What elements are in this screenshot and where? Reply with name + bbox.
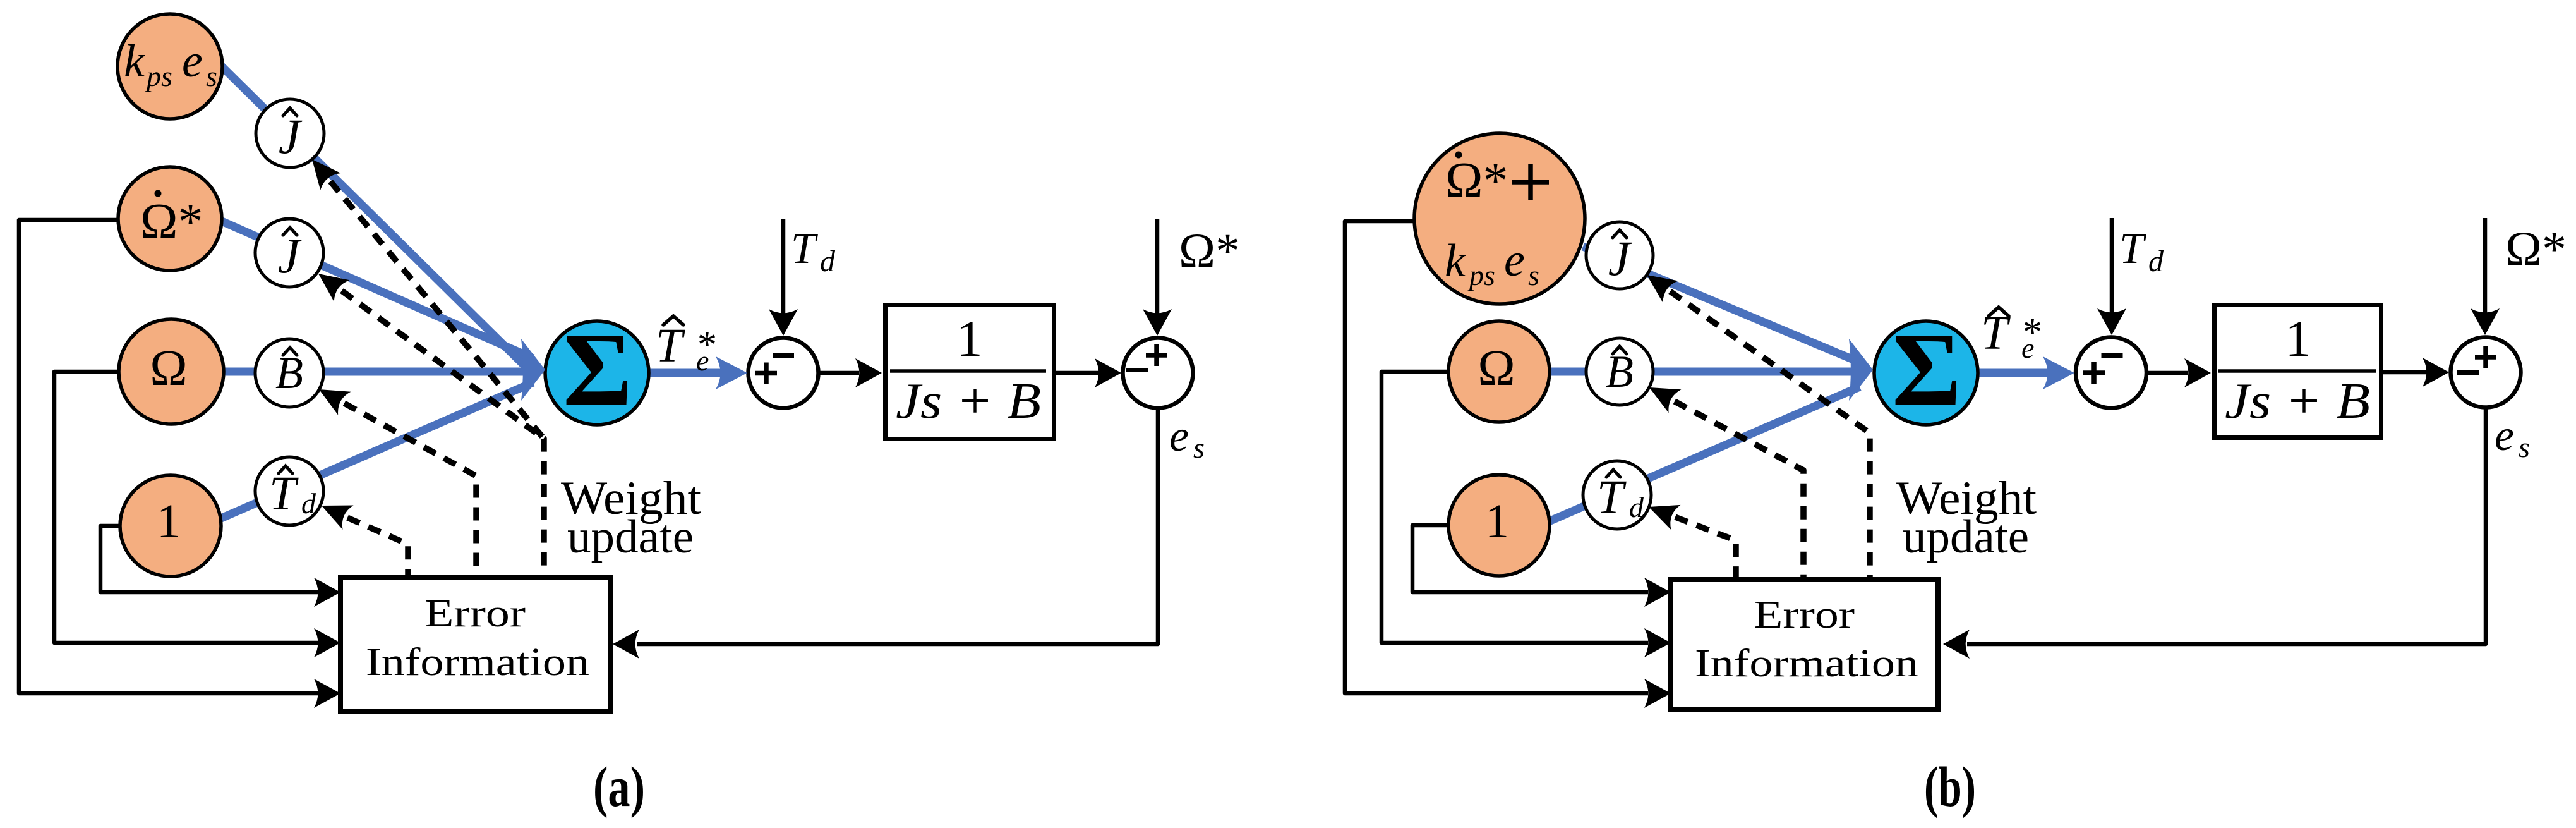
svg-text:T: T bbox=[656, 319, 685, 372]
wire box to junction2 (a) bbox=[1056, 371, 1099, 375]
weight B-hat (b) bbox=[1586, 338, 1653, 405]
node Omega-dot-star+k_ps*e_s input (b) bbox=[1414, 133, 1585, 304]
node k_ps*e_s input (a) bbox=[117, 14, 222, 119]
node 1 input (a) bbox=[120, 475, 221, 576]
svg-text:update: update bbox=[567, 511, 694, 563]
svg-text:s: s bbox=[1528, 259, 1539, 291]
svg-text:B: B bbox=[275, 348, 303, 398]
wire e_s feedback (a) bbox=[637, 407, 1158, 644]
wire box to junction2 (b) bbox=[2383, 370, 2427, 375]
svg-text:d: d bbox=[820, 245, 836, 278]
svg-text:Σ: Σ bbox=[563, 311, 632, 429]
weight T-hat-d (b) bbox=[1583, 461, 1651, 529]
svg-text:Js + B: Js + B bbox=[896, 374, 1041, 429]
svg-text:T: T bbox=[269, 467, 299, 520]
wire feedback Omega (b) bbox=[1381, 372, 1648, 643]
svg-text:Ω: Ω bbox=[150, 341, 187, 396]
svg-text:e: e bbox=[1504, 234, 1525, 286]
svg-text:T: T bbox=[791, 224, 819, 273]
error information box (a) bbox=[340, 578, 610, 711]
svg-text:Information: Information bbox=[366, 641, 589, 684]
arrowhead blue into Sigma (b) bbox=[1849, 339, 1873, 401]
arrowhead feedback3 into error box (a) bbox=[314, 679, 340, 708]
node Omega input (a) bbox=[119, 319, 224, 424]
wire dashed weight-update to B-hat (a) bbox=[344, 403, 476, 576]
junction2 plus sign (b) bbox=[2475, 355, 2496, 360]
arrowhead T_d (a) bbox=[769, 309, 798, 336]
junction1 minus sign (a) bbox=[773, 353, 794, 358]
svg-text:J: J bbox=[278, 228, 302, 283]
svg-text:J: J bbox=[279, 109, 303, 164]
wire Omega-star input (a) bbox=[1155, 219, 1160, 316]
svg-text:1: 1 bbox=[2285, 310, 2311, 367]
svg-text:T: T bbox=[1597, 471, 1627, 524]
arrowhead blue into Sigma (a) bbox=[521, 339, 545, 401]
svg-text:update: update bbox=[1903, 511, 2029, 563]
arrowhead Omega-star (a) bbox=[1143, 309, 1172, 336]
junction1 plus-minus (b) bbox=[2076, 338, 2146, 408]
svg-text:k: k bbox=[124, 35, 145, 87]
wire junction1 to box (a) bbox=[818, 371, 859, 375]
node 1 input (b) bbox=[1448, 475, 1550, 576]
wire blue Omega to Sigma (a) bbox=[224, 368, 538, 376]
junction1 plus-minus (a) bbox=[749, 338, 819, 408]
arrowhead feedback1 into error box (b) bbox=[1644, 578, 1671, 607]
svg-text:1: 1 bbox=[157, 495, 181, 548]
svg-text:e: e bbox=[182, 35, 203, 87]
wire blue Omega-dot-star to Sigma (a) bbox=[222, 221, 533, 358]
wire dashed weight-update to J-hat-2 (a) bbox=[342, 291, 544, 576]
arrowhead into junction2 (a) bbox=[1095, 358, 1121, 387]
wire dashed weight-update to J-hat-1 (a) bbox=[330, 181, 544, 439]
wire feedback Omega-dot-star (a) bbox=[19, 220, 319, 693]
junction1 plus sign (a) bbox=[755, 371, 777, 376]
svg-text:(a): (a) bbox=[593, 756, 645, 819]
arrowhead into box (a) bbox=[855, 358, 882, 387]
arrowhead dashed at J-hat-1 (a) bbox=[312, 159, 341, 190]
svg-text:Information: Information bbox=[1695, 642, 1918, 685]
svg-text:Ω*: Ω* bbox=[1179, 223, 1240, 278]
summation Sigma (b) bbox=[1874, 321, 1978, 425]
svg-text:e: e bbox=[2021, 332, 2034, 364]
svg-text:s: s bbox=[2519, 431, 2530, 463]
svg-text:ps: ps bbox=[1467, 259, 1495, 291]
wire dashed weight-update to T-hat-d (a) bbox=[347, 518, 408, 576]
error information box (b) bbox=[1671, 580, 1938, 710]
svg-text:Ω*: Ω* bbox=[1445, 153, 1508, 209]
arrowhead into box (b) bbox=[2184, 358, 2211, 387]
svg-text:e: e bbox=[696, 344, 709, 377]
wire dashed weight-update to J-hat (b) bbox=[1670, 291, 1870, 578]
arrowhead dashed at T-hat-d (a) bbox=[322, 506, 354, 530]
svg-text:e: e bbox=[1169, 412, 1189, 461]
wire blue Sigma output (b) bbox=[1978, 369, 2053, 377]
arrowhead into junction2 (b) bbox=[2423, 358, 2449, 387]
svg-text:Js + B: Js + B bbox=[2225, 374, 2370, 429]
svg-text:d: d bbox=[1629, 491, 1644, 523]
wire T_d input (b) bbox=[2110, 218, 2114, 315]
wire blue Sigma output (a) bbox=[649, 369, 726, 377]
junction2 minus sign (b) bbox=[2457, 370, 2479, 375]
svg-text:J: J bbox=[1608, 231, 1632, 286]
arrowhead dashed at B-hat (b) bbox=[1649, 387, 1682, 413]
wire T_d input (a) bbox=[781, 219, 786, 316]
wire blue 1 to Sigma (a) bbox=[221, 382, 533, 518]
svg-text:1: 1 bbox=[957, 310, 983, 367]
svg-text:s: s bbox=[1193, 432, 1205, 464]
junction1 minus sign (b) bbox=[2102, 353, 2123, 358]
wire blue 1 to Sigma (b) bbox=[1549, 387, 1860, 521]
wire e_s feedback (b) bbox=[1967, 406, 2486, 644]
svg-text:Error: Error bbox=[424, 592, 526, 635]
junction2 minus-plus (a) bbox=[1123, 338, 1193, 408]
wire feedback 1 (b) bbox=[1412, 525, 1648, 592]
svg-text:B: B bbox=[1606, 346, 1634, 397]
junction1 plus sign (b) bbox=[2083, 370, 2105, 375]
wire dashed weight-update to T-hat-d (b) bbox=[1675, 517, 1736, 578]
arrowhead dashed at J-hat (b) bbox=[1647, 275, 1678, 303]
svg-text:(b): (b) bbox=[1924, 756, 1976, 819]
junction2 minus sign (a) bbox=[1126, 368, 1148, 372]
arrowhead e_s into error box (b) bbox=[1943, 630, 1970, 659]
weight J-hat (b) bbox=[1586, 222, 1653, 289]
arrowhead dashed at B-hat (a) bbox=[319, 389, 351, 415]
svg-text:Ω*: Ω* bbox=[140, 194, 203, 250]
arrowhead blue into junction1 (b) bbox=[2043, 356, 2074, 389]
arrowhead T_d (b) bbox=[2097, 308, 2126, 335]
svg-text:Ω: Ω bbox=[1478, 341, 1515, 396]
arrowhead feedback2 into error box (b) bbox=[1644, 628, 1671, 657]
svg-text:d: d bbox=[2148, 245, 2164, 278]
arrowhead feedback1 into error box (a) bbox=[314, 578, 340, 607]
wire blue k_ps*e_s to Sigma (a) bbox=[221, 66, 533, 374]
wire blue Omega-dot-star+k_ps*e_s to Sigma (b) bbox=[1583, 247, 1861, 363]
weight T-hat-d (a) bbox=[255, 457, 323, 525]
wire feedback 1 (a) bbox=[100, 526, 319, 592]
svg-text:Σ: Σ bbox=[1892, 311, 1961, 429]
wire feedback Omega (a) bbox=[54, 372, 319, 643]
svg-text:Error: Error bbox=[1754, 594, 1855, 636]
arrowhead feedback3 into error box (b) bbox=[1644, 679, 1671, 708]
node Omega input (b) bbox=[1448, 321, 1550, 422]
transfer function box 1/(Js+B) (b) bbox=[2215, 305, 2381, 438]
svg-text:s: s bbox=[206, 60, 217, 92]
transfer function box 1/(Js+B) (a) bbox=[886, 305, 1054, 439]
wire junction1 to box (b) bbox=[2146, 371, 2188, 375]
svg-text:T: T bbox=[2119, 224, 2147, 273]
svg-text:1: 1 bbox=[1485, 495, 1509, 548]
weight J-hat 1 (a) bbox=[256, 99, 324, 167]
weight J-hat 2 (a) bbox=[255, 219, 323, 287]
svg-text:d: d bbox=[301, 487, 316, 520]
summation Sigma (a) bbox=[545, 321, 649, 425]
wire blue Omega to Sigma (b) bbox=[1550, 368, 1866, 376]
junction2 plus sign (a) bbox=[1146, 353, 1167, 358]
svg-text:k: k bbox=[1445, 235, 1466, 287]
svg-text:e: e bbox=[2495, 411, 2514, 460]
node Omega-dot-star input (a) bbox=[118, 167, 222, 271]
arrowhead dashed at T-hat-d (b) bbox=[1649, 505, 1681, 530]
arrowhead e_s into error box (a) bbox=[613, 630, 639, 659]
wire Omega-star input (b) bbox=[2483, 218, 2488, 314]
weight B-hat (a) bbox=[255, 339, 323, 407]
wire feedback Omega-dot-star+k_ps*e_s (b) bbox=[1345, 221, 1648, 693]
arrowhead blue into junction1 (a) bbox=[716, 356, 747, 389]
svg-text:Ω*: Ω* bbox=[2505, 221, 2567, 276]
wire dashed weight-update to B-hat (b) bbox=[1675, 401, 1803, 578]
junction2 minus-plus (b) bbox=[2451, 338, 2521, 408]
arrowhead dashed at J-hat-2 (a) bbox=[318, 274, 350, 301]
arrowhead Omega-star (b) bbox=[2471, 308, 2500, 335]
svg-text:ps: ps bbox=[145, 60, 172, 92]
arrowhead feedback2 into error box (a) bbox=[314, 628, 340, 657]
